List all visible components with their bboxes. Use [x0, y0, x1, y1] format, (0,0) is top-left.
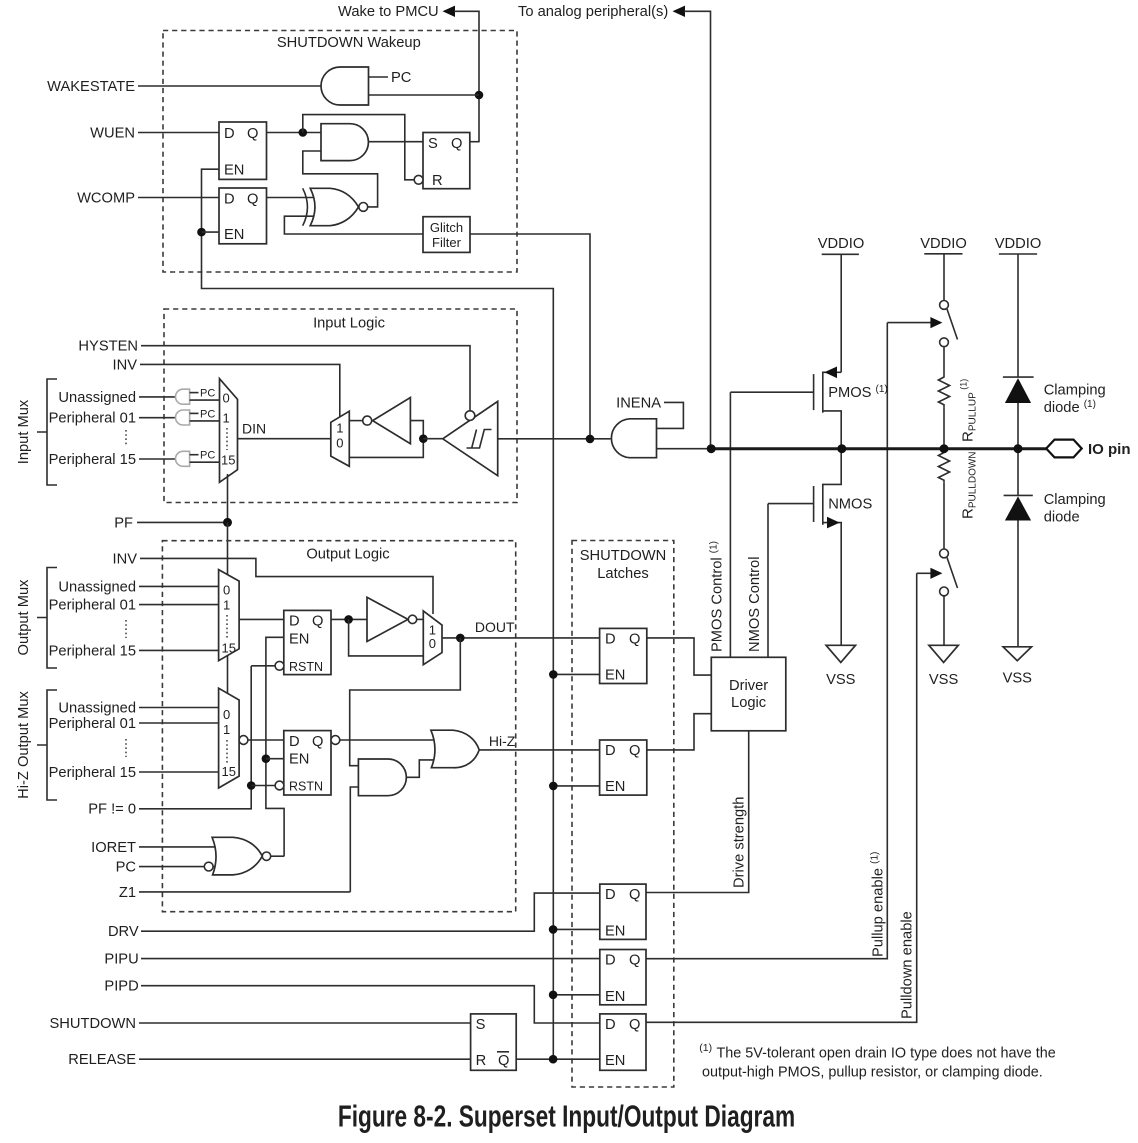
transistor NMOS [814, 448, 842, 646]
svg-text:D: D [289, 613, 300, 629]
svg-text:PC: PC [391, 70, 412, 86]
op-amp XNOR wake comparator [303, 188, 359, 225]
svg-text:Q: Q [629, 1017, 640, 1033]
svg-text:1: 1 [336, 420, 343, 435]
SHUTDOWN Latches dashed box [572, 541, 674, 1088]
dots input peripherals [125, 430, 127, 445]
wire RSTN2 stub [251, 785, 275, 787]
svg-text:RSTN: RSTN [289, 780, 323, 794]
svg-text:DIN: DIN [242, 421, 266, 437]
node junction WUEN Q [299, 128, 308, 137]
wire peripheral01 to output mux [139, 604, 219, 606]
wire DIN line [238, 438, 331, 440]
diode clamping diode upper [1003, 377, 1034, 403]
svg-text:Unassigned: Unassigned [58, 579, 136, 595]
or-gate Hi-Z OR [431, 730, 479, 768]
svg-text:Figure 8-2. Superset Input/Out: Figure 8-2. Superset Input/Output Diagra… [338, 1099, 795, 1134]
wire VDDIO2 to pullup switch [943, 254, 945, 301]
node junction output DFF Q [344, 615, 353, 624]
power VDDIO rail 1 [818, 236, 865, 254]
label Clamping diode (1) [1044, 383, 1106, 417]
svg-text:PC: PC [200, 450, 215, 462]
svg-text:Clamping: Clamping [1044, 383, 1106, 399]
wire NMOS gate [768, 503, 814, 505]
svg-text:Peripheral 15: Peripheral 15 [49, 765, 136, 781]
wire INV to input mux select [140, 364, 340, 417]
wire NOR output stub [271, 855, 284, 857]
svg-text:EN: EN [289, 752, 309, 768]
wire AND3 output to OR input [406, 760, 440, 777]
wire to-analog-peripherals with arrowhead [673, 6, 711, 449]
mux input demux trapezoid [220, 379, 238, 483]
wire output mux to DFF D [239, 618, 284, 620]
wire SR latch Qbar to EN rail and latch E EN [516, 1058, 600, 1060]
svg-text:EN: EN [605, 989, 625, 1005]
wire Z1 [139, 891, 350, 893]
op-amp INENA AND gate (left-pointing) [611, 419, 656, 458]
wire select PF to output muxes [227, 522, 229, 578]
node junction wake line / PC-AND input [475, 91, 484, 100]
inverter output inverter (right-pointing) [367, 597, 408, 641]
wire latch D EN from rail [553, 994, 600, 996]
wire INENA gate input from pad [657, 448, 712, 450]
bubble RSTN hi-z DFF [275, 781, 284, 790]
wire schmitt output to node [423, 438, 442, 440]
wire PIPU to latch D D [141, 958, 600, 960]
svg-text:WAKESTATE: WAKESTATE [47, 79, 135, 95]
wire XNOR lower input from glitch filter line [284, 216, 423, 234]
pass gate PC 3 (input mux) [176, 451, 220, 466]
svg-text:VDDIO: VDDIO [818, 236, 865, 252]
svg-text:SHUTDOWN Wakeup: SHUTDOWN Wakeup [277, 35, 421, 51]
svg-text:S: S [428, 136, 438, 152]
dots in output mux [226, 615, 228, 640]
wire pullup resistor to pad [943, 407, 945, 448]
bubble hi-z DFF Q output [331, 736, 340, 745]
node junction DOUT [456, 634, 465, 643]
wire pulldown resistor to switch [943, 482, 945, 549]
wire latch B EN from rail [553, 785, 599, 787]
svg-text:PF: PF [114, 515, 133, 531]
bracket output mux [37, 568, 57, 669]
svg-text:EN: EN [605, 923, 625, 939]
svg-text:Peripheral 01: Peripheral 01 [49, 716, 136, 732]
wire pad to lower diode [1017, 448, 1019, 496]
svg-text:Q: Q [629, 631, 640, 647]
or-gate NOR ioret gate [212, 837, 262, 875]
wire PMOS control [729, 392, 731, 657]
svg-text:SHUTDOWN: SHUTDOWN [50, 1016, 136, 1032]
svg-text:Hi-Z Output Mux: Hi-Z Output Mux [16, 690, 32, 798]
transistor PMOS [814, 367, 842, 448]
bubble NOR output [262, 852, 270, 860]
svg-text:IO pin: IO pin [1088, 441, 1131, 458]
wire unassigned to output mux [139, 585, 219, 587]
wire unassigned to hi-z mux [139, 707, 219, 709]
svg-text:Pullup enable (1): Pullup enable (1) [870, 852, 887, 957]
svg-text:output-high PMOS, pullup resis: output-high PMOS, pullup resistor, or cl… [702, 1065, 1043, 1081]
op-amp AND1 wakestate gate (left-pointing) [321, 67, 368, 105]
wire EN rail wakeup DFFs down to latch-enable rail [202, 169, 554, 1059]
wire WAKESTATE to AND gate output [138, 85, 322, 87]
svg-text:1: 1 [223, 722, 230, 737]
svg-text:Logic: Logic [731, 695, 766, 711]
svg-text:Unassigned: Unassigned [58, 701, 136, 717]
wire pullup enable arrow [887, 317, 942, 328]
bubble HYSTEN on schmitt [465, 411, 475, 421]
wire RELEASE to SR latch R [139, 1058, 471, 1060]
wire hi-z DFF EN stub [266, 758, 284, 760]
wire AND1 input PC stub [369, 76, 389, 78]
wire upper diode to pad [1017, 403, 1019, 448]
wire AND2 bottom input from XNOR output [303, 151, 378, 207]
latch SR shutdown-release [471, 1014, 517, 1070]
flip-flop hi-z DFF (D Q EN RSTN) [284, 731, 331, 795]
node junction hi-z DFF EN [262, 754, 271, 763]
flip-flop output DFF (D Q EN RSTN) [284, 610, 331, 674]
node junction EN rail latch B [549, 782, 558, 791]
wire inverter input from pad node [349, 421, 423, 458]
svg-text:VSS: VSS [1003, 671, 1033, 687]
svg-text:0: 0 [336, 435, 343, 450]
mux DOUT 1/0 [423, 611, 442, 665]
svg-text:EN: EN [605, 668, 625, 684]
box Driver Logic [711, 657, 786, 731]
wire latch C Q to drive strength [646, 731, 749, 893]
svg-text:D: D [224, 126, 235, 142]
svg-text:Peripheral 15: Peripheral 15 [49, 452, 136, 468]
pass gate PC 2 (input mux) [176, 410, 220, 425]
svg-text:Driver: Driver [729, 678, 768, 694]
svg-text:Input Logic: Input Logic [313, 316, 385, 332]
svg-text:Z1: Z1 [119, 885, 136, 901]
svg-text:NMOS Control: NMOS Control [747, 557, 763, 653]
wire WUEN Q output [267, 132, 322, 134]
svg-text:RELEASE: RELEASE [68, 1052, 136, 1068]
svg-text:PMOS Control (1): PMOS Control (1) [709, 541, 726, 652]
svg-text:PIPU: PIPU [104, 952, 138, 968]
svg-text:Q: Q [629, 887, 640, 903]
wire input mux select to PF junction [227, 474, 229, 522]
wire Hi-Z to latch B [479, 749, 599, 751]
wire PC to NOR input bubble [139, 866, 224, 868]
schmitt trigger input buffer (left-pointing) [443, 401, 498, 475]
bubble output inverter [408, 615, 416, 623]
wire peripheral15 to output mux [139, 649, 219, 651]
wire INENA to gate input [657, 402, 684, 428]
wire AND1 input from wake node [369, 94, 480, 96]
wire WCOMP to DFF D input [138, 197, 219, 199]
wire output DFF Q [331, 618, 367, 620]
pass gate PC 1 (input mux) [176, 389, 220, 404]
dots output peripherals [125, 620, 127, 638]
ground VSS diode [1003, 647, 1033, 687]
svg-text:PC: PC [116, 860, 137, 876]
svg-text:EN: EN [605, 1053, 625, 1069]
Output Logic dashed box [162, 541, 515, 912]
svg-text:D: D [605, 1017, 616, 1033]
wire latch B Q to driver logic [647, 714, 712, 750]
wire lower diode to VSS [1017, 521, 1019, 647]
bubble inverter input-INV output [363, 416, 372, 425]
mux INV select 1/0 (input) [331, 411, 350, 466]
wire SHUTDOWN to SR latch S [139, 1022, 471, 1024]
svg-text:VSS: VSS [929, 672, 959, 688]
bracket input mux [37, 379, 57, 485]
node junction MOS drains [837, 444, 846, 453]
wire AND2 output to S input [369, 141, 423, 143]
svg-text:PIPD: PIPD [104, 979, 138, 995]
wire peripheral01 to PC gate [139, 417, 178, 419]
svg-text:diode: diode [1044, 510, 1080, 526]
wire WUEN Q feedback loop to R input [303, 115, 415, 180]
latch B hi-z shutdown latch [600, 740, 647, 795]
svg-text:PC: PC [200, 408, 215, 420]
bubble hi-z mux output [239, 736, 248, 745]
dots in hi-z mux [226, 740, 228, 764]
svg-text:EN: EN [224, 227, 244, 243]
svg-text:0: 0 [429, 636, 436, 651]
wire SR latch Q to wake node [470, 141, 480, 143]
wire WCOMP Q to XNOR input [267, 197, 314, 199]
svg-text:EN: EN [289, 631, 309, 647]
wire wake-to-PMCU with arrowhead [443, 6, 480, 142]
svg-text:D: D [224, 192, 235, 208]
svg-text:INV: INV [113, 551, 138, 567]
wire WUEN to DFF D input [138, 132, 219, 134]
svg-text:Hi-Z: Hi-Z [489, 733, 516, 749]
latch E PIPD shutdown latch [600, 1014, 646, 1070]
switch pulldown enable switch [940, 549, 958, 596]
svg-text:Q: Q [451, 136, 462, 152]
svg-text:Q: Q [312, 734, 323, 750]
node junction PF select [223, 518, 232, 527]
wire NMOS control [767, 504, 769, 658]
latch SR wakeup (S Q / R) [423, 133, 470, 190]
svg-text:D: D [605, 953, 616, 969]
wire latch E Q to pulldown enable [646, 573, 917, 1022]
wire pulldown switch to VSS [943, 596, 945, 646]
wire peripheral01 to hi-z mux [139, 722, 219, 724]
wire latch A Q to driver logic [647, 638, 712, 675]
wire VDDIO3 to clamping diode [1017, 254, 1019, 377]
svg-text:WUEN: WUEN [90, 126, 135, 142]
bubble PC input inversion [204, 862, 213, 871]
op-amp AND2 wake-set gate [321, 124, 368, 161]
wire EN tie output DFFs to NOR output [266, 637, 284, 856]
wire latch C EN from rail [553, 928, 600, 930]
wire main pad line (thick) [711, 447, 1047, 450]
pin IO pin hexagon [1046, 440, 1082, 458]
wire DRV to latch C D [141, 893, 600, 931]
wire IORET to NOR input [139, 846, 224, 848]
svg-text:Clamping: Clamping [1044, 492, 1106, 508]
svg-text:The 5V-tolerant open drain IO: The 5V-tolerant open drain IO type does … [717, 1046, 1056, 1062]
svg-text:Q: Q [498, 1053, 509, 1069]
svg-text:D: D [605, 743, 616, 759]
dots in input mux [226, 428, 228, 450]
svg-text:15: 15 [221, 453, 235, 468]
svg-text:VDDIO: VDDIO [995, 236, 1042, 252]
bubble RSTN output DFF [275, 661, 284, 670]
diode clamping diode lower [1004, 495, 1033, 520]
svg-text:SHUTDOWN: SHUTDOWN [580, 548, 666, 564]
svg-text:Latches: Latches [597, 566, 648, 582]
svg-text:Drive strength: Drive strength [732, 797, 748, 888]
wire RSTN1 stub [251, 665, 275, 667]
switch pullup enable switch [940, 301, 958, 347]
svg-text:R: R [432, 173, 443, 189]
svg-text:RSTN: RSTN [289, 660, 323, 674]
svg-text:Unassigned: Unassigned [58, 390, 136, 406]
wire inverter bubble to mux 1 input [349, 420, 362, 422]
svg-text:Q: Q [312, 613, 323, 629]
wire latch D Q to pullup enable [646, 323, 887, 959]
wire schmitt input from INENA gate [498, 438, 611, 440]
flip-flop WUEN DFF [219, 122, 267, 179]
bracket hi-z output mux [37, 690, 57, 800]
svg-text:D: D [605, 631, 616, 647]
wire peripheral15 to PC gate [139, 458, 178, 460]
node junction EN rail bottom [549, 1055, 558, 1064]
node junction to-analog tap [707, 444, 716, 453]
wire HYSTEN to schmitt bubble [141, 346, 470, 411]
svg-text:Peripheral 01: Peripheral 01 [49, 598, 136, 614]
svg-text:Filter: Filter [432, 235, 462, 250]
wire pulldown enable arrow [917, 568, 943, 579]
wire PF [137, 521, 228, 523]
wire DOUT to latch A [442, 637, 600, 639]
svg-text:Wake to PMCU: Wake to PMCU [338, 4, 439, 20]
wire unassigned to PC gate [139, 396, 178, 398]
dots hi-z peripherals [125, 739, 127, 757]
svg-text:Q: Q [629, 743, 640, 759]
node junction schmitt output [419, 434, 428, 443]
svg-text:S: S [476, 1017, 486, 1033]
wire DOUT branch to Hi-Z AND input [350, 638, 461, 766]
svg-text:EN: EN [605, 779, 625, 795]
power VDDIO rail 2 [920, 236, 967, 254]
svg-text:Peripheral 01: Peripheral 01 [49, 411, 136, 427]
svg-text:D: D [605, 887, 616, 903]
svg-text:Peripheral 15: Peripheral 15 [49, 643, 136, 659]
svg-text:Q: Q [247, 126, 258, 142]
hysteresis symbol [467, 430, 492, 449]
power VDDIO rail 3 [995, 236, 1042, 254]
Input Logic dashed box [164, 309, 517, 503]
wire Q feedback to mux 0 input [349, 619, 424, 656]
wire inverter bubble to mux 1 input [417, 618, 424, 620]
svg-text:PC: PC [200, 388, 215, 400]
svg-text:IORET: IORET [91, 840, 136, 856]
svg-text:15: 15 [222, 764, 236, 779]
svg-text:INV: INV [113, 357, 138, 373]
svg-text:EN: EN [224, 163, 244, 179]
inverter input-INV (left-pointing) [373, 398, 411, 444]
resistor RPULLUP [938, 374, 949, 407]
wire glitch filter to pad node [470, 234, 590, 439]
svg-text:WCOMP: WCOMP [77, 191, 135, 207]
svg-text:R: R [476, 1053, 487, 1069]
svg-text:Pulldown enable: Pulldown enable [900, 911, 916, 1019]
node junction diodes tap [1014, 444, 1023, 453]
wire PF!=0 to RSTN rail [139, 666, 251, 809]
wire switch to pullup resistor [943, 347, 945, 374]
node junction EN rail latch C [549, 925, 558, 934]
svg-text:PF != 0: PF != 0 [88, 802, 136, 818]
op-amp AND3 hi-z gate [358, 759, 406, 796]
ground VSS nmos [826, 645, 856, 688]
svg-text:VSS: VSS [826, 672, 856, 688]
wire AND3 bottom input from Z1 [350, 787, 358, 892]
wire select between output muxes [227, 655, 229, 697]
latch A DOUT shutdown latch [600, 628, 647, 683]
svg-text:15: 15 [222, 640, 236, 655]
wire INV to DOUT mux select [140, 558, 433, 614]
ground VSS pulldown [929, 645, 959, 688]
svg-text:NMOS: NMOS [828, 497, 872, 513]
node junction WCOMP EN [197, 228, 206, 237]
wire VDDIO1 to PMOS source [840, 254, 842, 372]
node junction RSTN2 [247, 781, 256, 790]
bubble R input inversion [414, 175, 423, 184]
SHUTDOWN Wakeup dashed box [163, 31, 517, 273]
node junction resistors tap [940, 444, 949, 453]
svg-text:1: 1 [223, 411, 230, 426]
svg-text:Input Mux: Input Mux [16, 399, 32, 464]
footnote (1) [699, 1042, 1055, 1081]
svg-text:Output Mux: Output Mux [16, 579, 32, 656]
bubble XNOR output [359, 203, 368, 212]
svg-text:0: 0 [223, 390, 230, 405]
latch C DRV shutdown latch [600, 884, 646, 939]
svg-text:0: 0 [223, 582, 230, 597]
svg-text:Output Logic: Output Logic [306, 546, 389, 562]
node junction EN rail latch D [549, 991, 558, 1000]
resistor RPULLDOWN [938, 448, 949, 482]
svg-text:HYSTEN: HYSTEN [78, 339, 138, 355]
svg-text:To analog peripheral(s): To analog peripheral(s) [518, 4, 668, 20]
node junction glitch filter tap [586, 435, 595, 444]
wire hi-z mux to DFF D [248, 739, 284, 741]
svg-text:0: 0 [223, 707, 230, 722]
svg-text:DOUT: DOUT [475, 619, 515, 635]
wire WCOMP EN stub [202, 231, 220, 233]
svg-text:Q: Q [247, 192, 258, 208]
node junction EN rail latch A [549, 670, 558, 679]
wire PMOS gate [730, 391, 813, 393]
wire latch A EN from rail [553, 673, 599, 675]
wire PIPD to latch E D [141, 986, 600, 1023]
wire peripheral15 to hi-z mux [139, 771, 219, 773]
mux output mux trapezoid [219, 570, 240, 661]
svg-text:Glitch: Glitch [430, 220, 463, 235]
svg-text:Q: Q [629, 953, 640, 969]
svg-text:INENA: INENA [616, 395, 661, 411]
wire hi-z DFF Q to OR gate [340, 739, 440, 741]
svg-text:(1): (1) [699, 1042, 712, 1054]
svg-text:VDDIO: VDDIO [920, 236, 967, 252]
latch D PIPU shutdown latch [600, 950, 646, 1005]
mux hi-z output mux trapezoid [219, 688, 240, 788]
svg-text:D: D [289, 734, 300, 750]
label Clamping diode lower [1044, 492, 1106, 526]
box Glitch Filter [423, 217, 470, 253]
svg-text:1: 1 [223, 597, 230, 612]
flip-flop WCOMP DFF [219, 188, 267, 244]
svg-text:DRV: DRV [108, 924, 139, 940]
